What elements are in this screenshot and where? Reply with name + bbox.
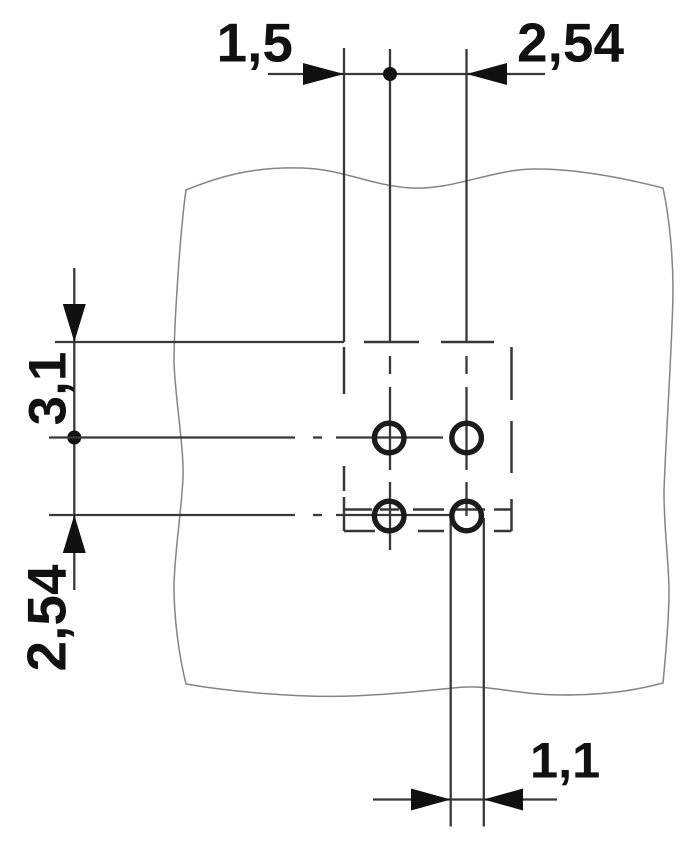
svg-text:3,1: 3,1 [19, 352, 78, 426]
svg-text:1,1: 1,1 [530, 732, 600, 789]
svg-text:1,5: 1,5 [217, 12, 293, 74]
svg-text:2,54: 2,54 [16, 564, 78, 671]
svg-text:2,54: 2,54 [517, 12, 624, 74]
